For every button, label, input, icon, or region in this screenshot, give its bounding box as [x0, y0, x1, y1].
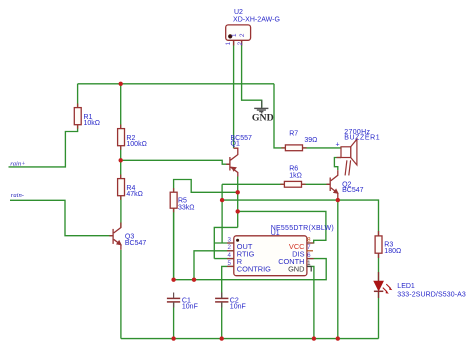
svg-text:180Ω: 180Ω — [384, 248, 401, 255]
IC U1 pin stubs right — [307, 243, 314, 272]
wire rail down to R7 — [274, 84, 341, 148]
svg-text:47kΩ: 47kΩ — [126, 191, 143, 198]
wire rail to R2 top — [120, 84, 122, 129]
wire pin1 GND to rail — [307, 266, 314, 338]
svg-text:1kΩ: 1kΩ — [289, 173, 302, 180]
node C2 bottom — [220, 336, 224, 340]
wire Q2 emitter down to rail — [337, 200, 339, 339]
svg-text:+: + — [336, 142, 340, 149]
wire pin4 branch — [214, 258, 234, 260]
wire Q3 emitter to bottom rail — [120, 250, 122, 339]
wire R1 top to rail — [77, 84, 79, 108]
capacitor C2 — [215, 293, 228, 308]
transistor Q2 BC547 — [327, 170, 338, 200]
wire LED bottom to rail — [378, 291, 380, 339]
node C1 top — [171, 278, 175, 282]
svg-text:6: 6 — [307, 252, 311, 259]
node VCC branch — [236, 209, 240, 213]
resistor R4 — [118, 179, 125, 196]
svg-text:2: 2 — [239, 33, 246, 37]
svg-text:GND: GND — [252, 113, 274, 124]
svg-text:333-2SURD/S530-A3: 333-2SURD/S530-A3 — [397, 292, 466, 299]
node C1 bottom — [171, 336, 175, 340]
wire U2 pin2 to GND — [242, 40, 262, 107]
wire CONTRIG pin5 to C2 — [222, 266, 234, 298]
node RTIG rail — [192, 278, 196, 282]
wire R6 left drop — [221, 184, 223, 243]
wire R2 bottom to R4 top — [120, 146, 122, 179]
resistor R2 — [118, 129, 125, 146]
transistor Q1 BC557 — [226, 148, 238, 176]
node Q1 collector R5 — [236, 190, 240, 194]
svg-text:GND: GND — [288, 264, 304, 273]
svg-text:10nF: 10nF — [182, 304, 198, 311]
wire U2 pin1 down to Q1 emitter — [233, 40, 235, 148]
LED1 — [374, 231, 392, 298]
capacitor C1 — [167, 293, 180, 308]
svg-text:3: 3 — [228, 236, 232, 243]
wire Q1 collector down — [237, 177, 239, 228]
IC U1 pin stubs left — [227, 243, 234, 266]
resistor R7 — [285, 145, 302, 151]
node GND rail — [312, 336, 316, 340]
svg-text:1: 1 — [307, 260, 311, 267]
svg-text:2: 2 — [237, 41, 244, 45]
node Q2e rail — [336, 336, 340, 340]
svg-text:2: 2 — [228, 244, 232, 251]
svg-text:BC547: BC547 — [125, 240, 147, 247]
svg-text:7: 7 — [307, 244, 311, 251]
resistor R5 — [170, 192, 177, 208]
buzzer BUZZER1 — [341, 139, 357, 175]
IC U1 pin names — [237, 242, 305, 274]
wire R4 bottom to Q3 collector — [120, 196, 122, 228]
node R2-R4-base — [119, 158, 123, 162]
wire VCC net Q1 collector to pin8 — [238, 211, 326, 243]
svg-text:BC547: BC547 — [342, 187, 364, 194]
svg-text:XD-XH-2AW-G: XD-XH-2AW-G — [233, 17, 280, 24]
wire top power rail — [78, 83, 274, 85]
wire trig rail under 555 — [174, 208, 327, 280]
wire R3 bottom to LED — [378, 253, 380, 281]
svg-text:R7: R7 — [289, 130, 298, 137]
node Q2 emitter — [336, 198, 340, 202]
transistor Q3 BC547 — [109, 223, 121, 250]
svg-text:100kΩ: 100kΩ — [126, 141, 146, 148]
svg-text:rain-: rain- — [11, 192, 24, 199]
svg-text:LED1: LED1 — [397, 283, 415, 290]
svg-text:1: 1 — [231, 33, 238, 37]
wire C2 bottom — [221, 302, 223, 339]
svg-text:Q1: Q1 — [231, 141, 240, 148]
wire R5 top jog to node A — [174, 180, 238, 193]
wire OUT stair to pin3 and pin4 — [214, 227, 237, 258]
svg-text:8: 8 — [307, 236, 311, 243]
node R6 drop — [220, 198, 224, 202]
node rail-R2 — [119, 82, 123, 86]
wire C1 bottom — [173, 302, 175, 339]
svg-text:33kΩ: 33kΩ — [178, 204, 195, 211]
wire R6 row — [222, 183, 330, 185]
wire pin3 branch — [214, 242, 234, 244]
svg-text:BUZZER1: BUZZER1 — [344, 135, 379, 142]
svg-text:39Ω: 39Ω — [304, 137, 317, 144]
svg-text:10nF: 10nF — [230, 304, 246, 311]
svg-text:5: 5 — [228, 260, 232, 267]
resistor R1 — [74, 108, 81, 125]
svg-text:NE555DTR(XBLW): NE555DTR(XBLW) — [271, 225, 334, 232]
resistor R6 — [284, 181, 301, 187]
svg-text:1: 1 — [225, 41, 232, 45]
resistor R3 — [375, 236, 382, 253]
svg-text:U1: U1 — [271, 230, 280, 237]
wire rain+ to R1 bottom — [9, 125, 78, 167]
wire bottom ground rail — [121, 338, 379, 340]
component pin stubs — [78, 104, 341, 213]
wire rain- to Q3 base — [10, 200, 113, 235]
svg-text:4: 4 — [228, 252, 232, 259]
ground symbol GND — [254, 100, 268, 113]
svg-text:10kΩ: 10kΩ — [84, 120, 101, 127]
wire R5 bottom to C1 node — [173, 208, 175, 280]
wire buzzer bottom to Q2 collector — [334, 158, 341, 171]
svg-text:rain+: rain+ — [10, 160, 25, 167]
svg-text:U2: U2 — [234, 9, 243, 16]
IC U1 NE555 box — [234, 236, 307, 276]
connector U2 XD-XH-2AW-G — [225, 25, 251, 46]
wire Q2 emitter row to R3 — [222, 200, 378, 236]
svg-text:CONTRIG: CONTRIG — [237, 264, 271, 273]
wire RTIG pin2 to C1 rail — [194, 251, 234, 280]
IC U1 pin numbers left — [228, 236, 232, 266]
wire node R2R4 to Q1 base — [121, 160, 230, 164]
IC U1 pin numbers right — [307, 236, 311, 266]
